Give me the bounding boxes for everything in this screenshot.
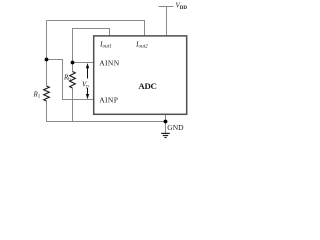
svg-text:VDD: VDD: [176, 2, 188, 11]
svg-text:GND: GND: [167, 123, 184, 132]
svg-text:AINN: AINN: [99, 58, 120, 67]
svg-text:R1: R1: [33, 91, 41, 100]
svg-text:ADC: ADC: [138, 81, 156, 91]
svg-text:Iout1: Iout1: [99, 39, 112, 49]
svg-text:AINP: AINP: [99, 95, 118, 104]
svg-text:Vp: Vp: [82, 81, 89, 90]
svg-text:Iout2: Iout2: [135, 39, 148, 49]
